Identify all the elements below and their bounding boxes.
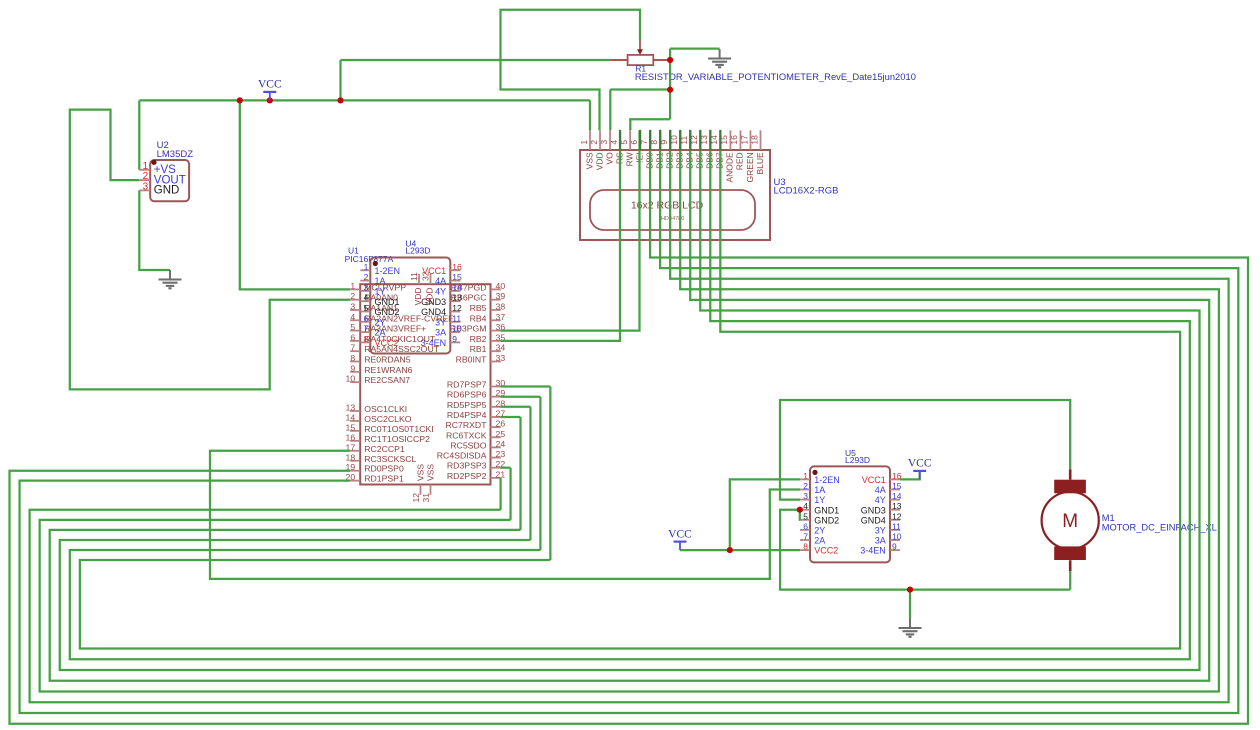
svg-text:1-2EN: 1-2EN	[375, 266, 401, 276]
svg-text:RC4SDISDA: RC4SDISDA	[437, 451, 487, 461]
svg-text:RD0PSP0: RD0PSP0	[364, 464, 404, 474]
svg-text:2A: 2A	[375, 328, 386, 338]
svg-text:1A: 1A	[375, 276, 386, 286]
svg-text:3-4EN: 3-4EN	[421, 338, 447, 348]
svg-text:3: 3	[364, 282, 369, 292]
svg-text:1: 1	[350, 281, 355, 291]
svg-text:15: 15	[346, 422, 356, 432]
svg-text:LM35DZ: LM35DZ	[157, 149, 194, 160]
svg-text:GND1: GND1	[814, 505, 839, 515]
svg-text:RA3AN3VREF+: RA3AN3VREF+	[364, 324, 426, 334]
svg-text:RE1WRAN6: RE1WRAN6	[364, 365, 412, 375]
svg-text:13: 13	[346, 403, 356, 413]
svg-text:31: 31	[421, 493, 431, 503]
svg-text:9: 9	[892, 542, 897, 552]
svg-text:13: 13	[892, 501, 902, 511]
svg-text:9: 9	[350, 363, 355, 373]
svg-text:16: 16	[452, 262, 462, 272]
svg-text:RC2CCP1: RC2CCP1	[364, 444, 405, 454]
svg-text:8: 8	[803, 542, 808, 552]
svg-text:2Y: 2Y	[375, 317, 386, 327]
svg-text:RD4PSP4: RD4PSP4	[447, 410, 487, 420]
svg-text:3A: 3A	[875, 536, 886, 546]
svg-text:5: 5	[364, 303, 369, 313]
svg-text:8: 8	[364, 334, 369, 344]
svg-text:17: 17	[739, 135, 749, 145]
svg-text:VCC: VCC	[908, 458, 932, 470]
svg-text:VCC2: VCC2	[814, 546, 838, 556]
svg-text:GND2: GND2	[814, 515, 839, 525]
svg-text:VO: VO	[604, 152, 614, 165]
svg-text:8: 8	[350, 353, 355, 363]
svg-text:1Y: 1Y	[814, 495, 825, 505]
svg-text:6: 6	[803, 521, 808, 531]
svg-text:4: 4	[350, 312, 355, 322]
svg-text:RED: RED	[735, 152, 745, 170]
svg-text:GND1: GND1	[375, 297, 400, 307]
svg-text:RC6TXCK: RC6TXCK	[446, 430, 487, 440]
svg-text:OSC1CLKI: OSC1CLKI	[364, 404, 407, 414]
svg-text:5: 5	[803, 511, 808, 521]
svg-text:4: 4	[364, 293, 369, 303]
svg-text:RC3SCKSCL: RC3SCKSCL	[364, 454, 416, 464]
svg-text:RD7PSP7: RD7PSP7	[447, 380, 487, 390]
svg-text:16: 16	[729, 135, 739, 145]
svg-text:13: 13	[452, 293, 462, 303]
svg-text:10: 10	[892, 532, 902, 542]
svg-text:1Y: 1Y	[375, 287, 386, 297]
svg-text:RB4: RB4	[470, 313, 487, 323]
svg-text:L293D: L293D	[845, 455, 870, 465]
svg-text:VCC1: VCC1	[862, 475, 886, 485]
svg-text:RD6PSP6: RD6PSP6	[447, 390, 487, 400]
svg-text:14: 14	[452, 282, 462, 292]
svg-text:GND4: GND4	[861, 515, 886, 525]
svg-text:16x2 RGB LCD: 16x2 RGB LCD	[631, 199, 704, 211]
svg-text:14: 14	[892, 491, 902, 501]
svg-text:RD3PSP3: RD3PSP3	[447, 461, 487, 471]
svg-text:VSS: VSS	[584, 152, 594, 169]
svg-text:7: 7	[803, 532, 808, 542]
svg-text:18: 18	[346, 452, 356, 462]
svg-text:16: 16	[346, 432, 356, 442]
svg-text:L293D: L293D	[405, 246, 430, 256]
svg-text:VSS: VSS	[426, 464, 436, 481]
svg-text:LCD16X2-RGB: LCD16X2-RGB	[774, 186, 839, 197]
svg-text:RB2: RB2	[470, 334, 487, 344]
svg-text:RD2PSP2: RD2PSP2	[447, 471, 487, 481]
svg-text:1: 1	[579, 140, 589, 145]
svg-text:GND4: GND4	[421, 307, 446, 317]
svg-text:6: 6	[350, 332, 355, 342]
svg-text:M: M	[1062, 511, 1078, 532]
svg-text:RC1T1OSICCP2: RC1T1OSICCP2	[364, 434, 430, 444]
svg-text:RC7RXDT: RC7RXDT	[445, 420, 487, 430]
svg-text:3-4EN: 3-4EN	[860, 546, 886, 556]
svg-text:26: 26	[496, 419, 506, 429]
svg-text:5: 5	[350, 322, 355, 332]
svg-text:9: 9	[452, 334, 457, 344]
svg-text:11: 11	[452, 313, 461, 323]
svg-text:RC0T1OS0T1CKI: RC0T1OS0T1CKI	[364, 424, 434, 434]
svg-text:RE2CSAN7: RE2CSAN7	[364, 375, 410, 385]
svg-text:38: 38	[496, 302, 506, 312]
svg-text:VCC2: VCC2	[375, 338, 399, 348]
svg-text:2Y: 2Y	[814, 526, 825, 536]
svg-text:ANODE: ANODE	[725, 152, 735, 183]
svg-text:12: 12	[892, 511, 902, 521]
svg-text:2: 2	[350, 291, 355, 301]
svg-text:1: 1	[364, 262, 369, 272]
svg-text:4: 4	[803, 501, 808, 511]
svg-text:RB5: RB5	[470, 303, 487, 313]
svg-text:GND3: GND3	[861, 505, 886, 515]
svg-text:VDD: VDD	[594, 152, 604, 170]
svg-text:3Y: 3Y	[875, 526, 886, 536]
svg-text:12: 12	[411, 493, 421, 503]
svg-text:RESISTOR_VARIABLE_POTENTIOMETE: RESISTOR_VARIABLE_POTENTIOMETER_RevE_Dat…	[635, 71, 916, 82]
svg-text:3: 3	[350, 302, 355, 312]
svg-text:40: 40	[496, 281, 506, 291]
svg-text:34: 34	[496, 343, 506, 353]
svg-text:37: 37	[496, 312, 506, 322]
svg-text:39: 39	[496, 291, 506, 301]
svg-text:10: 10	[346, 374, 356, 384]
svg-text:GREEN: GREEN	[745, 152, 755, 182]
svg-text:RB0INT: RB0INT	[456, 355, 488, 365]
svg-text:3Y: 3Y	[435, 317, 446, 327]
svg-text:6: 6	[629, 140, 639, 145]
svg-text:24: 24	[496, 439, 506, 449]
svg-text:15: 15	[892, 481, 902, 491]
svg-text:3: 3	[599, 140, 609, 145]
svg-text:23: 23	[496, 449, 506, 459]
svg-text:VSS: VSS	[416, 464, 426, 481]
svg-text:2: 2	[589, 140, 599, 145]
svg-text:4Y: 4Y	[435, 287, 446, 297]
svg-text:PIC16F877A: PIC16F877A	[345, 254, 394, 264]
svg-text:3A: 3A	[435, 328, 446, 338]
svg-text:11: 11	[892, 521, 901, 531]
svg-text:RD5PSP5: RD5PSP5	[447, 400, 487, 410]
svg-text:7: 7	[350, 343, 355, 353]
svg-text:3: 3	[143, 181, 149, 192]
svg-text:11: 11	[409, 272, 419, 281]
svg-text:33: 33	[496, 353, 506, 363]
svg-text:RW: RW	[624, 152, 634, 166]
svg-text:1: 1	[803, 471, 808, 481]
svg-text:OSC2CLKO: OSC2CLKO	[364, 414, 412, 424]
svg-text:25: 25	[496, 429, 506, 439]
svg-text:BLUE: BLUE	[755, 152, 765, 175]
svg-text:10: 10	[452, 324, 462, 334]
svg-text:2A: 2A	[814, 536, 825, 546]
svg-text:VCC: VCC	[668, 528, 692, 540]
svg-text:4A: 4A	[875, 485, 886, 495]
svg-text:12: 12	[452, 303, 462, 313]
svg-text:3: 3	[803, 491, 808, 501]
svg-text:GND: GND	[154, 185, 180, 197]
svg-text:4: 4	[609, 140, 619, 145]
svg-text:RD1PSP1: RD1PSP1	[364, 474, 404, 484]
svg-text:15: 15	[452, 272, 462, 282]
svg-text:1-2EN: 1-2EN	[814, 475, 840, 485]
svg-text:RB1: RB1	[470, 344, 487, 354]
svg-text:18: 18	[749, 135, 759, 145]
svg-text:2: 2	[803, 481, 808, 491]
svg-text:14: 14	[346, 412, 356, 422]
svg-text:4A: 4A	[435, 276, 446, 286]
svg-text:GND3: GND3	[421, 297, 446, 307]
svg-text:2: 2	[364, 272, 369, 282]
svg-text:GND2: GND2	[375, 307, 400, 317]
svg-text:4Y: 4Y	[875, 495, 886, 505]
svg-text:7: 7	[364, 324, 369, 334]
svg-text:VCC: VCC	[258, 79, 282, 91]
svg-text:1A: 1A	[814, 485, 825, 495]
svg-text:RC5SDO: RC5SDO	[450, 440, 486, 450]
svg-text:6: 6	[364, 313, 369, 323]
svg-text:RE0RDAN5: RE0RDAN5	[364, 355, 411, 365]
svg-text:VCC1: VCC1	[422, 266, 446, 276]
